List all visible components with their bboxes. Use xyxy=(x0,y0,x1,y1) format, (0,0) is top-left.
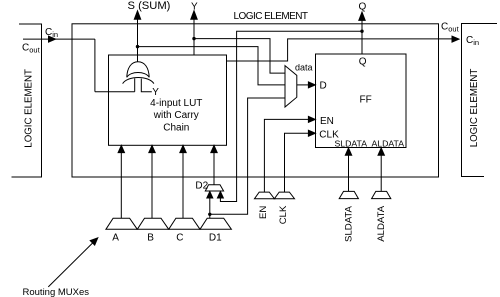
EN mux xyxy=(255,192,275,199)
svg-text:D1: D1 xyxy=(209,233,222,244)
right neighbor logic element outline xyxy=(462,24,498,177)
routing MUXes pointer arrowhead xyxy=(90,238,98,245)
LUT input A arrowhead xyxy=(118,145,124,152)
CLK input arrowhead xyxy=(308,130,315,136)
XOR gate input arc 2 xyxy=(123,77,154,83)
svg-text:D2: D2 xyxy=(195,181,208,192)
wire carry-in vertical xyxy=(94,39,96,92)
svg-text:Cout: Cout xyxy=(22,43,41,55)
svg-text:LOGIC ELEMENT: LOGIC ELEMENT xyxy=(234,11,308,22)
Q output arrowhead xyxy=(359,12,365,20)
routing mux B xyxy=(137,218,168,229)
svg-text:EN: EN xyxy=(258,206,269,219)
svg-text:Cout: Cout xyxy=(441,22,460,34)
routing mux D1 xyxy=(200,218,231,229)
XOR right input stem with Y tail xyxy=(141,79,152,92)
data mux xyxy=(285,66,297,107)
wire Q stem from arrow to FF top xyxy=(361,20,363,55)
SLDATA mux xyxy=(339,191,358,198)
D2 mux xyxy=(205,185,223,191)
svg-text:A: A xyxy=(112,233,119,244)
wire data mux output to D xyxy=(297,84,309,86)
carry-in arrowhead xyxy=(49,36,56,42)
svg-text:ALDATA: ALDATA xyxy=(372,139,405,149)
left neighbor logic element outline xyxy=(12,24,42,177)
svg-text:with Carry: with Carry xyxy=(153,110,199,121)
wire carry-in to XOR left input xyxy=(95,91,135,93)
wire C from routing mux to LUT xyxy=(182,152,184,218)
FF box xyxy=(316,54,407,148)
D2 mux right input arrowhead xyxy=(217,192,223,199)
svg-text:D: D xyxy=(320,80,327,91)
svg-text:LOGIC ELEMENT: LOGIC ELEMENT xyxy=(469,69,480,148)
wire D1 branch to data mux input 3 xyxy=(210,98,285,214)
svg-text:C: C xyxy=(176,233,183,244)
wire SLDATA mux to FF xyxy=(348,155,350,192)
svg-text:Q: Q xyxy=(359,57,367,68)
svg-text:4-input LUT: 4-input LUT xyxy=(150,98,202,109)
svg-text:Q: Q xyxy=(359,2,367,13)
LUT input D arrowhead xyxy=(211,145,217,152)
svg-text:LOGIC ELEMENT: LOGIC ELEMENT xyxy=(23,69,34,148)
svg-text:Routing MUXes: Routing MUXes xyxy=(23,287,90,297)
CLK mux xyxy=(274,192,294,199)
svg-text:Cin: Cin xyxy=(466,35,479,47)
svg-text:FF: FF xyxy=(360,95,372,106)
wire D1 to D2 mux left input xyxy=(209,197,211,218)
ALDATA mux xyxy=(372,191,391,198)
wire CLK mux to FF xyxy=(285,133,309,192)
wire S branch to data mux input 2 xyxy=(138,47,285,85)
XOR left input stem xyxy=(134,78,136,91)
EN input arrowhead xyxy=(308,116,315,122)
wire B from routing mux to LUT xyxy=(151,152,153,218)
SLDATA input arrowhead xyxy=(345,148,351,155)
node dot on Q stem xyxy=(360,30,363,33)
wire ALDATA mux to FF xyxy=(380,155,382,192)
wire S stem from arrow to XOR output xyxy=(137,19,139,62)
LUT box U1 xyxy=(109,55,227,145)
svg-text:EN: EN xyxy=(320,116,334,127)
Y output arrowhead xyxy=(191,11,197,19)
wire EN mux to FF xyxy=(264,119,309,192)
carry-out arrowhead xyxy=(452,36,459,42)
svg-text:SLDATA: SLDATA xyxy=(344,205,355,241)
svg-text:ALDATA: ALDATA xyxy=(376,205,387,241)
svg-text:Chain: Chain xyxy=(163,123,189,134)
wire carry-in line xyxy=(23,38,95,40)
node dot on Y stem xyxy=(192,37,195,40)
routing mux C xyxy=(169,218,200,229)
S (SUM) output arrowhead xyxy=(134,11,140,19)
D input arrowhead xyxy=(308,82,315,88)
node dot on S stem xyxy=(136,45,139,48)
wire Y branch to data mux input 1 xyxy=(194,39,285,74)
D2 mux left input arrowhead xyxy=(207,192,213,199)
wire Q feedback to D2 mux right input xyxy=(220,31,362,201)
svg-text:S (SUM): S (SUM) xyxy=(128,0,171,12)
main logic element box xyxy=(72,24,439,177)
svg-text:data: data xyxy=(295,63,313,73)
routing mux A xyxy=(106,218,137,229)
wire Y stem from arrow to LUT top xyxy=(193,19,195,56)
svg-text:CLK: CLK xyxy=(278,205,289,224)
svg-text:B: B xyxy=(147,233,154,244)
wire carry-out from LUT to Cout xyxy=(227,39,459,61)
ALDATA input arrowhead xyxy=(378,148,384,155)
node dot on D1 line xyxy=(208,213,211,216)
wire D from D2 mux to LUT xyxy=(213,152,215,185)
XOR gate body xyxy=(127,62,149,78)
routing MUXes pointer arrow xyxy=(48,243,92,287)
XOR gate input arc 1 xyxy=(127,73,149,78)
svg-text:SLDATA: SLDATA xyxy=(335,139,368,149)
LUT input B arrowhead xyxy=(149,145,155,152)
svg-text:Y: Y xyxy=(152,87,159,98)
wire A from routing mux to LUT xyxy=(120,152,122,218)
LUT input C arrowhead xyxy=(180,145,186,152)
